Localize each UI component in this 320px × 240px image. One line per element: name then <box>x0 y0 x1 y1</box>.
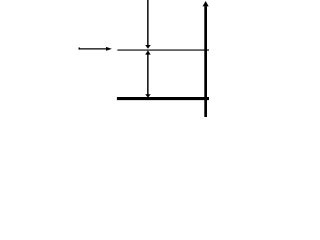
wire: thin horizontal reference line <box>117 49 209 51</box>
wire: thick horizontal base line <box>117 97 209 100</box>
wire: thick vertical axis with up arrowhead <box>203 1 209 117</box>
node A: left horizontal arrow pointing right <box>79 47 112 51</box>
wire: double-headed vertical dimension arrow <box>145 50 151 97</box>
wire: thin vertical line from top edge down to upper arrowhead <box>145 0 151 49</box>
